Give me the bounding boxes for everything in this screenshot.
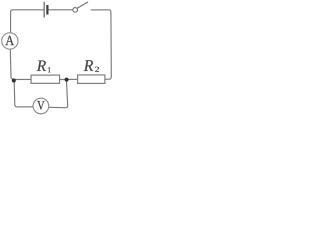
wire R1 to node B [60,79,66,81]
battery negative short thick plate [46,5,48,15]
ammeter A circle [2,33,18,49]
wire voltmeter to node B riser [49,82,68,108]
wire battery to switch [49,9,73,11]
resistor R1 box [31,75,60,83]
label R1 [37,61,46,71]
ammeter letter A [5,36,14,45]
wire top-left: corner to battery [11,10,44,33]
wire switch to top-right corner down to R2 [91,10,111,79]
battery positive long plate [43,2,45,18]
switch S pivot circle [73,8,78,13]
wire left junction down to bottom-left corner to voltmeter [14,82,33,107]
switch S lever [77,2,87,8]
voltmeter V circle [33,98,49,114]
wire ammeter down to left junction [10,50,14,81]
wire node B to R2 [67,78,78,80]
label R2 [84,60,93,71]
resistor R2 box [78,75,105,83]
junction node B dot [65,78,69,82]
voltmeter letter V [37,101,44,110]
wire left junction to R1 [14,78,31,80]
junction node A dot [12,79,16,83]
